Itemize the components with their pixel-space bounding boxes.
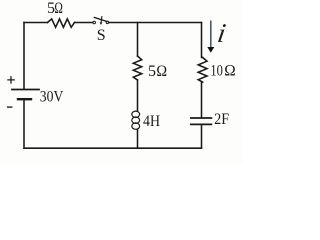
svg-text:Ω: Ω [224,63,236,80]
svg-text:Ω: Ω [156,63,167,80]
svg-text:4H: 4H [143,113,160,130]
svg-text:5: 5 [148,63,156,80]
svg-text:2F: 2F [214,111,229,128]
svg-text:10: 10 [210,63,223,80]
svg-text:30V: 30V [40,89,64,106]
svg-text:Ω: Ω [54,0,63,17]
svg-text:S: S [97,27,106,44]
